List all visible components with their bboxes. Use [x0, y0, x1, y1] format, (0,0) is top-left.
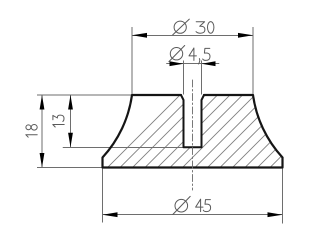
dimension Ø45: arrowheads	[103, 212, 283, 217]
extension line: bottom surface left (for 18)	[38, 167, 103, 169]
dimension 13: dimension line	[70, 95, 72, 147]
dimension Ø4,5: extension lines	[184, 61, 202, 94]
dimension Ø30: arrowheads	[132, 33, 253, 38]
dimension Ø30: text	[173, 19, 214, 35]
dimension 18: text (rotated)	[26, 125, 37, 138]
dimension Ø4,5: text	[169, 46, 210, 65]
hole void (white)	[181, 95, 204, 147]
dimension Ø30: dimension line	[132, 34, 253, 36]
dimension 18: arrowheads	[40, 95, 45, 168]
dimension 13: text (rotated)	[53, 115, 64, 127]
counterbored hole outline	[181, 95, 204, 147]
centerline (vertical axis, dash-dot)	[192, 80, 194, 190]
extension line: top surface (for 18 and 13)	[38, 94, 134, 96]
dimension 18: dimension line	[41, 95, 43, 168]
extension line: hole bottom (for 13)	[63, 146, 184, 148]
dimension Ø30: extension lines	[132, 28, 253, 94]
dimension Ø45: extension lines	[103, 169, 283, 223]
dimension 13: arrowheads	[68, 95, 73, 147]
hatching (section lines)	[35, 35, 320, 240]
dimension Ø4,5: arrowheads	[170, 61, 216, 66]
dimension Ø45: dimension line	[103, 214, 283, 216]
dimension Ø4,5: dimension line	[167, 63, 220, 65]
body outline (section profile)	[103, 95, 283, 168]
dimension Ø45: text	[173, 196, 211, 214]
